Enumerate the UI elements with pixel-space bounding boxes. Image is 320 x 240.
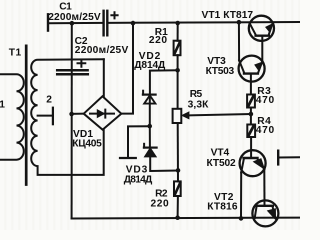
label VT1 KT817	[202, 10, 254, 21]
wire R5 wiper to R3-R4 node	[189, 114, 251, 115]
label VT3 KT503	[206, 56, 235, 77]
junction dot rail-R1	[175, 21, 180, 26]
transistor VT3 symbol	[239, 22, 262, 94]
svg-text:Д814Д: Д814Д	[134, 60, 166, 71]
label R4	[256, 116, 275, 136]
label C1	[48, 2, 101, 23]
label R1	[149, 27, 168, 46]
wire R5 bottom to R2 top	[177, 123, 179, 181]
svg-text:КТ816: КТ816	[207, 202, 238, 213]
wire secondary top lead down to bridge top corner	[103, 59, 105, 96]
terminal X2 bar	[120, 157, 136, 159]
svg-text:3,3К: 3,3К	[188, 100, 210, 111]
resistor R1	[174, 41, 181, 56]
transistor VT3 circle	[239, 56, 265, 82]
transistor VT1 circle	[249, 16, 274, 41]
terminal X3 bar right	[277, 151, 279, 165]
resistor R4	[247, 125, 255, 138]
junction dot bridge minus	[69, 112, 74, 117]
svg-text:220: 220	[151, 198, 170, 209]
svg-text:2200м/25V: 2200м/25V	[75, 45, 129, 56]
transistor VT2 circle	[252, 200, 278, 226]
wire R2 bottom to bottom rail	[177, 196, 179, 218]
label C2	[75, 36, 129, 56]
label winding 1	[0, 100, 5, 111]
wire top rail right segment	[108, 21, 300, 24]
label R3	[256, 86, 275, 106]
transformer T1 primary winding 1	[0, 74, 24, 160]
resistor R2	[174, 181, 181, 196]
wire R3 to R4	[250, 108, 252, 125]
wire VD2 anode to VD3 cathode	[149, 126, 151, 147]
transistor VT2 symbol	[255, 206, 276, 219]
label VD1	[72, 129, 102, 150]
wire top rail left segment	[48, 22, 103, 24]
wire output tap to terminal X2	[128, 126, 150, 158]
junction dot rail-VT3	[237, 20, 242, 25]
label VD2	[134, 51, 166, 71]
svg-text:470: 470	[256, 95, 275, 106]
capacitor C2	[57, 60, 88, 74]
label VD3	[124, 165, 153, 186]
potentiometer R5	[173, 109, 189, 123]
wire left vertical from top rail down to bottom-left corner	[71, 23, 73, 218]
label R2	[151, 189, 170, 210]
label VT4 KT502	[207, 147, 237, 169]
junction dot VD3-chain	[176, 168, 181, 173]
transistor VT1 symbol	[250, 23, 273, 61]
wire bottom rail	[72, 217, 300, 220]
zener diode VD2	[143, 91, 156, 126]
junction dot VD2-VD3	[147, 124, 152, 129]
label R5	[188, 89, 210, 111]
zener diode VD3	[144, 144, 157, 157]
bridge rectifier VD1 diamond	[84, 96, 122, 129]
transformer T1 secondary winding 2	[31, 59, 104, 175]
svg-text:2: 2	[46, 94, 52, 105]
transformer T1 core	[25, 46, 28, 185]
svg-text:T1: T1	[9, 47, 22, 58]
wire R1 top from rail	[177, 23, 179, 41]
wire VD3 anode to chain node	[150, 157, 178, 171]
wire R1 bottom to VD2-node	[177, 55, 179, 109]
svg-text:2200м/25V: 2200м/25V	[48, 12, 101, 23]
svg-text:1: 1	[0, 100, 5, 111]
capacitor C1	[104, 11, 118, 36]
svg-text:КЦ405: КЦ405	[72, 138, 102, 149]
wire node to VD2 top	[150, 70, 178, 94]
junction dot rail-C2	[70, 21, 75, 26]
svg-text:470: 470	[256, 125, 275, 136]
svg-text:R5: R5	[190, 89, 203, 100]
resistor R3	[247, 95, 255, 108]
secondary center tap terminal bar	[52, 108, 54, 125]
transistor VT4 symbol	[241, 158, 265, 218]
junction dot R1-VD2	[175, 68, 180, 73]
transistor VT4 circle	[240, 150, 266, 176]
bridge VD1 inner diode	[90, 110, 114, 118]
svg-text:КТ503: КТ503	[206, 66, 235, 77]
wire terminal X3 to edge	[278, 156, 300, 158]
label winding 2	[46, 94, 52, 105]
svg-text:220: 220	[149, 35, 168, 46]
svg-text:Д814Д: Д814Д	[124, 174, 153, 185]
label VT2 KT816	[207, 192, 238, 213]
label T1	[9, 47, 22, 58]
junction dot rail-bridge	[131, 21, 136, 26]
junction dot rail-VT4	[239, 216, 244, 221]
secondary center tap wire	[38, 115, 53, 117]
wire bridge left corner to left vertical	[72, 113, 84, 115]
terminal X1 top-left bar	[47, 14, 49, 30]
junction dot rail-R2	[175, 215, 180, 220]
svg-text:КТ502: КТ502	[207, 158, 237, 169]
wire R4 to VT4 base	[250, 137, 252, 158]
wire bridge right corner to top rail	[121, 23, 133, 114]
svg-text:VT4: VT4	[211, 147, 230, 158]
svg-text:VT1 КТ817: VT1 КТ817	[202, 10, 254, 21]
junction dot R3-R4-wiper	[249, 112, 254, 117]
